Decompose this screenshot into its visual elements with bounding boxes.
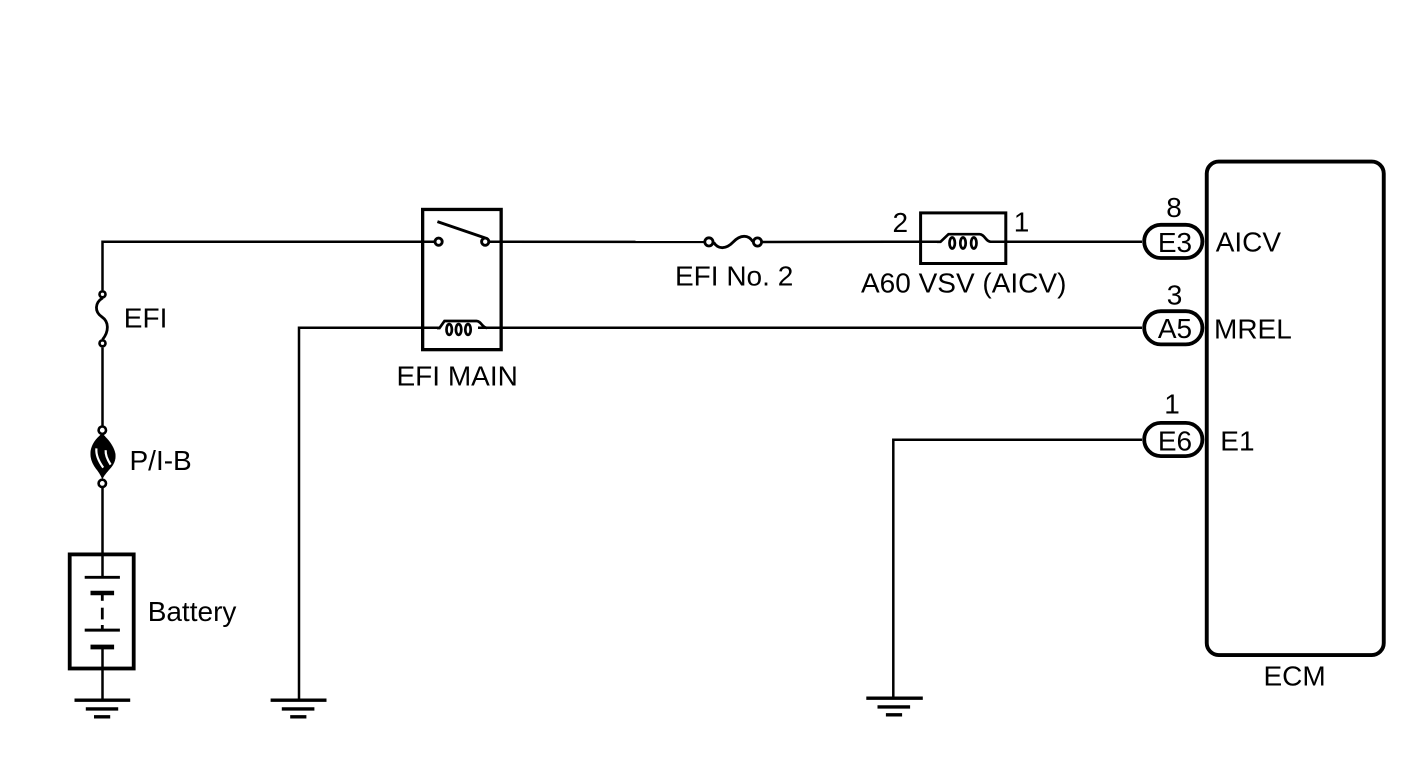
wire relay coil to ground junction (left leg down to ground) [299,328,440,700]
fusible link P/I-B (symbol: two terminals with thick leaf) [91,427,116,488]
wire battery negative to ground [101,647,104,700]
solenoid valve A60 VSV (AICV) box [921,213,1006,264]
fuse EFI No. 2 (symbol: two terminals with wave) [705,236,762,247]
svg-text:1: 1 [1014,207,1030,238]
svg-text:Battery: Battery [148,596,237,627]
connector pin E3 (oval terminal) [1144,225,1202,258]
wire relay switch output to EFI No. 2 fuse [490,241,705,244]
A60 VSV coil [937,234,991,248]
wire battery branch: vertical riser and top horizontal run to EFI MAIN relay [103,242,435,291]
battery (box with cell plates) [70,554,134,668]
svg-text:E1: E1 [1220,426,1254,457]
svg-text:EFI No. 2: EFI No. 2 [675,260,793,291]
ground (battery) [75,700,131,717]
svg-text:EFI MAIN: EFI MAIN [397,360,518,391]
svg-text:E3: E3 [1158,227,1192,258]
fuse EFI (symbol: two terminals with S-curve) [96,291,107,346]
relay EFI MAIN (box) [423,209,502,349]
svg-text:A5: A5 [1158,313,1192,344]
wire EFI No. 2 fuse to VSV pin 2 [762,240,939,243]
relay EFI MAIN switch contact right [482,238,489,245]
svg-text:E6: E6 [1158,426,1192,457]
ground (EFI MAIN relay coil) [271,700,327,717]
connector pin A5 (oval terminal) [1144,311,1202,344]
connector pin E6 (oval terminal) [1144,423,1202,456]
relay EFI MAIN coil [437,321,487,335]
svg-text:8: 8 [1166,192,1182,223]
wire P/I-B to battery positive terminal [101,488,104,577]
svg-text:A60 VSV (AICV): A60 VSV (AICV) [861,268,1066,299]
svg-text:EFI: EFI [124,303,168,334]
svg-text:3: 3 [1167,279,1183,310]
relay EFI MAIN switch contact left [435,238,442,245]
relay EFI MAIN switch blade [437,222,485,238]
wire relay coil to ECM terminal A5 [478,327,1142,330]
wire EFI fuse to P/I-B fusible link [101,348,104,426]
wire VSV pin 1 to ECM terminal E3 [990,240,1143,243]
ground (ECM E1 terminal) [866,698,923,715]
svg-text:1: 1 [1164,388,1180,419]
wire ECM terminal E6 to ground (left run and drop) [893,440,1142,698]
svg-text:P/I-B: P/I-B [130,445,192,476]
ECM (box) [1207,162,1384,656]
svg-text:MREL: MREL [1214,314,1292,345]
svg-text:AICV: AICV [1216,227,1282,258]
svg-text:ECM: ECM [1264,661,1326,692]
svg-text:2: 2 [893,207,909,238]
